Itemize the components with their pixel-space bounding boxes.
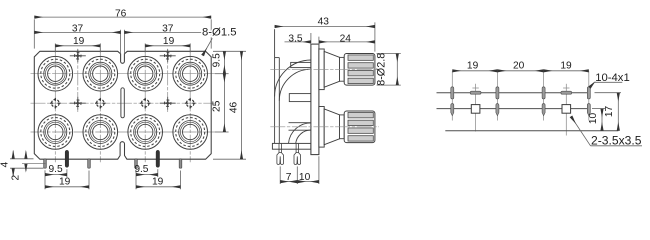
svg-text:4: 4 (0, 161, 11, 167)
svg-text:19: 19 (59, 177, 71, 188)
svg-text:19: 19 (163, 36, 175, 47)
svg-text:7: 7 (286, 172, 292, 183)
svg-text:10: 10 (299, 172, 311, 183)
svg-text:19: 19 (152, 177, 164, 188)
svg-text:25: 25 (211, 100, 222, 112)
svg-text:9.5: 9.5 (49, 164, 63, 175)
svg-text:46: 46 (228, 102, 239, 114)
svg-text:37: 37 (162, 24, 174, 35)
svg-text:2-3.5x3.5: 2-3.5x3.5 (591, 134, 642, 148)
svg-text:2: 2 (10, 174, 21, 180)
svg-text:24: 24 (340, 33, 352, 44)
svg-text:19: 19 (73, 36, 85, 47)
svg-text:8-Ø1.5: 8-Ø1.5 (202, 26, 237, 38)
svg-text:10: 10 (588, 113, 599, 125)
svg-text:20: 20 (513, 60, 525, 71)
svg-text:37: 37 (72, 24, 84, 35)
svg-text:9.5: 9.5 (211, 53, 222, 67)
svg-text:9.5: 9.5 (134, 164, 148, 175)
svg-text:43: 43 (318, 16, 330, 27)
svg-text:19: 19 (560, 60, 572, 71)
svg-text:17: 17 (604, 106, 615, 118)
svg-text:76: 76 (115, 8, 127, 19)
svg-text:19: 19 (467, 60, 479, 71)
svg-text:3.5: 3.5 (288, 33, 302, 44)
svg-text:8-Ø2.8: 8-Ø2.8 (375, 53, 387, 86)
